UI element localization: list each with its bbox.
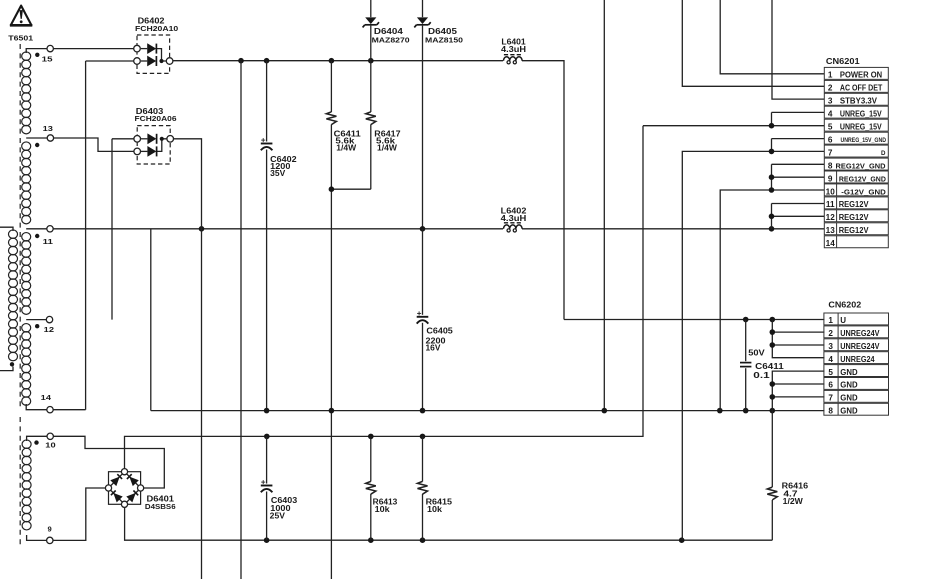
CN6201 row 8 box [824, 158, 888, 170]
D6402 diode 1 [147, 43, 156, 54]
CN6201 row 10 box [824, 184, 888, 196]
capacitor C6411 leads [745, 320, 747, 362]
primary winding (left) [9, 230, 18, 239]
wire 11-line tee down to gnd bus (x=150.8) [150, 229, 152, 411]
node dot pin9 [769, 174, 775, 180]
pin 9 terminal [47, 537, 53, 543]
wire CN6201 pin9 stub [772, 176, 825, 178]
node dot gnd x745.7 [743, 408, 749, 414]
wire to pin10 from gnd bus [720, 190, 824, 411]
CN6201 row 14 divider [836, 236, 838, 248]
diode pack D6403 dashed box [137, 126, 170, 164]
svg-text:8: 8 [828, 407, 833, 416]
svg-text:REG12V: REG12V [839, 226, 869, 235]
CN6201 row 2 box [824, 80, 888, 92]
wire CN6201 pin11 stub [772, 203, 825, 205]
svg-text:REG12V: REG12V [839, 200, 869, 209]
resistor R6411 (labelled C6411) [326, 112, 336, 125]
wire lower winding top to pin 10 [27, 436, 47, 441]
CN6202 row 4 box [824, 352, 889, 364]
svg-text:12: 12 [44, 325, 54, 334]
winding 10-9 (lower secondary) [22, 440, 31, 449]
pin 10 terminal [47, 433, 53, 439]
bridge top terminal [121, 469, 127, 475]
CN6201 row 14 box [824, 236, 888, 248]
wire resistor bottoms joining jog [331, 188, 370, 190]
CN6202 row 1 box [824, 313, 889, 325]
wire x241 vertical [240, 61, 242, 579]
svg-text:T6501: T6501 [8, 33, 34, 42]
CN6202 row 1 divider [837, 313, 839, 325]
svg-text:D4SBS6: D4SBS6 [145, 502, 176, 511]
CN6201 row 11 box [824, 197, 888, 209]
node dot bottom x681.7 [679, 537, 685, 543]
primary bottom lead [0, 367, 13, 371]
CN6202 row 6 box [824, 378, 889, 390]
svg-text:14: 14 [826, 239, 836, 248]
node dot cn2 pin7 [770, 394, 776, 400]
svg-text:REG12V_GND: REG12V_GND [836, 161, 886, 170]
bridge bottom terminal [121, 501, 127, 507]
D6403 internal wires [141, 138, 147, 140]
svg-text:7: 7 [828, 394, 833, 403]
wire winding bottom to pin 14 [26, 404, 47, 410]
svg-text:11: 11 [43, 237, 54, 246]
phase dot near 13 [35, 143, 39, 147]
wire cn2 pin6 stub [772, 383, 824, 385]
svg-text:STBY3.3V: STBY3.3V [840, 97, 878, 106]
svg-text:9: 9 [48, 525, 52, 534]
CN6201 row 10 divider [836, 184, 838, 196]
svg-text:U: U [840, 316, 846, 325]
svg-text:FCH20A10: FCH20A10 [135, 24, 178, 33]
node dot pin12 [769, 214, 775, 220]
wire D6405 top lead [422, 0, 424, 17]
svg-text:12: 12 [826, 213, 836, 222]
winding 11-12 [22, 233, 31, 242]
node dot bus x241 [238, 58, 244, 64]
stub pins 8-10 [771, 164, 773, 190]
CN6201 row 12 divider [836, 210, 838, 222]
wire D6403 pin1 to x112 [112, 138, 134, 140]
node dot pin7 [769, 149, 775, 155]
CN6202 row 5 divider [837, 365, 839, 377]
CN6202 row 8 divider [837, 403, 839, 415]
svg-text:7: 7 [828, 148, 833, 157]
wire pin9 to bridge left [53, 488, 105, 540]
inductor L6401 [504, 57, 523, 61]
svg-text:D: D [881, 150, 886, 157]
CN6201 row 13 divider [836, 223, 838, 235]
D6403 pin 1 circle [134, 136, 141, 143]
wire pin10 jog to bridge right [53, 436, 164, 488]
svg-text:1/4W: 1/4W [336, 144, 356, 153]
wire D6403 pin1 down to pin 12 (x=112) [111, 139, 113, 320]
node dot 11-line x201.5 [199, 226, 205, 232]
svg-text:1: 1 [828, 71, 833, 80]
svg-text:3: 3 [828, 342, 833, 351]
resistor R6413 [366, 481, 376, 494]
svg-text:4: 4 [828, 355, 833, 364]
CN6201 row 12 box [824, 210, 888, 222]
svg-text:6: 6 [828, 381, 833, 390]
svg-text:UNREG24V: UNREG24V [840, 329, 880, 338]
zener diode D6405 [417, 17, 428, 24]
svg-text:4.3uH: 4.3uH [501, 45, 526, 54]
svg-text:FCH20A06: FCH20A06 [135, 114, 177, 123]
stub pins 11-13 [771, 204, 773, 229]
node dot unreg x422.5 [420, 434, 426, 440]
CN6202 row 7 divider [837, 390, 839, 402]
CN6202 row 4 divider [837, 352, 839, 364]
wire feeder to CN6201 pin1 [720, 0, 824, 74]
wire L6401 branch to CN6202 pin1 [564, 319, 824, 321]
wire D6404 top lead [370, 0, 372, 17]
wire pin15 to D6402 pin1 [53, 48, 136, 50]
CN6201 row 13 box [824, 223, 888, 235]
CN6202 row 2 divider [837, 326, 839, 338]
diode pack D6402 dashed box [137, 35, 170, 73]
node dot unreg x266.8 [264, 434, 270, 440]
D6402 diode 2 [147, 56, 156, 67]
resistor R6417 [366, 112, 376, 125]
D6403 output pin circle [167, 136, 174, 143]
wire x266.6 vertical lower [266, 150, 268, 411]
bridge right terminal [138, 485, 144, 491]
node dot bus x266.6 [264, 58, 270, 64]
node dot cn2 pin1 x745.7 [743, 317, 749, 323]
CN6201 row 3 box [824, 93, 888, 105]
capacitor C6403 [261, 485, 273, 487]
wire D6404 to bus [370, 26, 372, 61]
wire CN6201 pin8 stub [772, 163, 825, 165]
wire feeder to CN6201 pin2 [682, 0, 824, 86]
svg-text:2: 2 [828, 329, 833, 338]
capacitor C6405 [417, 316, 429, 318]
capacitor C6411 plates [740, 362, 751, 364]
bridge positive riser [125, 126, 644, 469]
wire CN6201 pin12 stub [772, 215, 825, 217]
capacitor C6403 top lead [266, 436, 268, 483]
CN6202 row 2 box [824, 326, 889, 338]
node dot pin10 [769, 187, 775, 193]
svg-text:8: 8 [828, 161, 833, 170]
pin 15 terminal [47, 45, 53, 51]
pin 12 terminal [46, 316, 52, 322]
wire x422.5 cap to gnd bus [422, 323, 424, 411]
svg-text:50V: 50V [748, 348, 765, 357]
svg-text:1/4W: 1/4W [377, 144, 397, 153]
resistor R6416 leads [771, 411, 773, 487]
gnd bus wire [151, 410, 825, 412]
wire D6405 down to 11-line [422, 26, 424, 229]
wire x331.4 vertical [330, 61, 332, 112]
svg-text:REG12V_GND: REG12V_GND [839, 174, 886, 183]
bridge diode lower-right (to right node) [126, 493, 136, 503]
resistor R6416 [767, 487, 777, 500]
node dot gnd x719.8 [717, 408, 723, 414]
svg-text:-G12V_GND: -G12V_GND [841, 187, 886, 196]
wire D6402 pin2 down to pin 14 (x=85.6) [85, 61, 87, 410]
svg-text:11: 11 [826, 200, 835, 209]
phase dot near 15 [35, 53, 39, 57]
node dot 11-line x422.5 [420, 226, 426, 232]
node dot gnd x422.5 [420, 408, 426, 414]
wire x370.8 vertical upper [370, 61, 372, 112]
CN6201 row 4 box [824, 106, 888, 118]
svg-text:UNREG_15V_GND: UNREG_15V_GND [841, 137, 887, 144]
wire cn2 pin2 stub [772, 331, 824, 333]
svg-text:35V: 35V [270, 169, 286, 178]
node dot 11-line x771.5 [769, 226, 775, 232]
svg-text:GND: GND [840, 394, 858, 403]
wire feeder to CN6201 pin3 [772, 0, 824, 99]
D6403 internal junction dot [160, 137, 164, 141]
CN6202 row 8 box [824, 403, 889, 415]
node dot bus x370.8 [368, 58, 374, 64]
CN6202 row 3 divider [837, 339, 839, 351]
node dot bus x331.4 [329, 58, 335, 64]
wire cn2 pin7 stub [772, 396, 824, 398]
svg-text:5: 5 [828, 123, 833, 132]
inductor L6402 [504, 225, 523, 229]
CN6201 row 11 divider [836, 197, 838, 209]
svg-text:0.1: 0.1 [753, 371, 770, 380]
stub pins 6-7 [771, 139, 773, 152]
D6402 internal junction dot [159, 59, 163, 63]
svg-text:GND: GND [840, 407, 858, 416]
winding 13-11 [22, 142, 31, 151]
node dot gnd x266.6 [264, 408, 270, 414]
phase dot near 12 [35, 324, 39, 328]
wire x422.5 above cap [422, 229, 424, 315]
transformer core (dashed) [19, 44, 21, 410]
svg-text:5: 5 [828, 368, 833, 377]
warning triangle symbol [11, 6, 32, 26]
primary top lead [0, 227, 13, 231]
D6403 diode 1 [147, 133, 156, 144]
wire D6402 pin2 to node [86, 60, 137, 62]
svg-text:UNREG24: UNREG24 [840, 355, 875, 364]
wire CN6201 pin6 stub [772, 138, 825, 140]
node dot bottom x422.5 [420, 537, 426, 543]
node dot cn2 pin6 [770, 381, 776, 387]
D6403 diode 2 [147, 146, 156, 157]
wire to pin7 from bottom bus [682, 151, 824, 540]
pin 14 terminal [47, 407, 53, 413]
svg-text:10: 10 [45, 441, 55, 450]
D6403 pin 2 circle [134, 148, 141, 155]
wire cn2 pins1-4 tie [772, 320, 824, 358]
svg-text:GND: GND [840, 368, 858, 377]
svg-text:POWER ON: POWER ON [840, 71, 882, 80]
wire lower winding bottom to pin 9 [27, 535, 47, 540]
wire 11-line to connector [53, 228, 503, 230]
svg-text:1: 1 [828, 316, 833, 325]
wire feeder x604.3 from top [603, 0, 605, 408]
resistor R6413 leads [370, 436, 372, 481]
wire tap to pin 12 [26, 319, 46, 321]
wire winding top to pin 15 [26, 49, 47, 53]
svg-text:15: 15 [42, 55, 54, 64]
node dot cn2 pin3 [770, 342, 776, 348]
node dot cn2 pin2 [770, 329, 776, 335]
D6402 pin 1 circle [134, 45, 141, 52]
svg-text:GND: GND [840, 381, 858, 390]
svg-text:MAZ8270: MAZ8270 [372, 36, 410, 45]
zener diode D6404 [365, 17, 376, 24]
wire CN6201 pin4 stub [772, 111, 825, 113]
CN6201 row 5 box [824, 119, 888, 131]
bridge left terminal [105, 485, 111, 491]
node dot pin5 [769, 123, 775, 129]
capacitor C6402 [261, 143, 273, 145]
pin 13 terminal [47, 135, 53, 141]
CN6202 row 3 box [824, 339, 889, 351]
bridge diode upper-left (to top node) [110, 477, 119, 487]
wire tap to pin 11 [26, 228, 47, 230]
svg-text:9: 9 [828, 174, 833, 183]
CN6201 row 9 box [824, 171, 888, 183]
node dot unreg x370.8 [368, 434, 374, 440]
CN6202 row 7 box [824, 390, 889, 402]
node dot cn2 pin1 x772.3 [770, 317, 776, 323]
winding 12-14 [22, 324, 31, 333]
svg-text:10k: 10k [427, 505, 443, 514]
wire tap to pin 13 [26, 137, 47, 139]
stub pins 4-5 [771, 112, 773, 125]
svg-text:1/2W: 1/2W [783, 497, 804, 506]
wire bus after L6401 to corner [522, 61, 564, 320]
D6402 internal wires [141, 48, 147, 50]
wire pin14 [53, 409, 85, 411]
phase dot near 10 [34, 440, 38, 444]
node dot gnd x604.3 [602, 408, 608, 414]
bridge D6401 outer box [109, 472, 141, 505]
bridge diode lower-left (to left node) [113, 493, 122, 503]
svg-text:14: 14 [41, 393, 52, 402]
svg-text:UNREG_15V: UNREG_15V [840, 123, 882, 132]
wire cn2 pin3 stub [772, 344, 824, 346]
node dot x331.4 y189.2 [329, 186, 335, 192]
capacitor C6403 bottom lead [266, 492, 268, 541]
svg-text:UNREG24V: UNREG24V [840, 342, 880, 351]
svg-text:16V: 16V [426, 344, 442, 353]
node dot bottom x266.6 [264, 537, 270, 543]
svg-text:CN6201: CN6201 [826, 57, 860, 66]
svg-text:4: 4 [828, 110, 833, 119]
svg-text:C6405: C6405 [426, 327, 453, 336]
svg-text:C6411: C6411 [755, 362, 784, 371]
pin 11 terminal [47, 226, 53, 232]
bridge diode upper-right (to top node) [129, 477, 139, 487]
svg-text:10: 10 [826, 187, 836, 196]
wire D6403 output to x201.5 down [174, 139, 202, 579]
svg-text:AC OFF DET: AC OFF DET [840, 84, 882, 93]
CN6202 row 6 divider [837, 378, 839, 390]
svg-text:10k: 10k [375, 505, 391, 514]
phase dot near 11 [35, 234, 39, 238]
bridge diamond wires [109, 472, 125, 488]
node dot gnd x772.3 [770, 408, 776, 414]
svg-text:MAZ8150: MAZ8150 [425, 36, 463, 45]
svg-text:4.3uH: 4.3uH [501, 214, 527, 223]
svg-text:13: 13 [43, 124, 53, 133]
CN6202 row 5 box [824, 365, 889, 377]
node dot gnd x331.4 [329, 408, 335, 414]
resistor R6415 [418, 481, 428, 494]
wire x266.6 vertical upper [266, 61, 268, 142]
wire unreg15 riser to pin5 [643, 125, 824, 127]
winding 15-13 (secondary) [22, 52, 31, 61]
svg-text:3: 3 [828, 97, 833, 106]
D6402 output pin circle [166, 58, 173, 65]
CN6201 row 1 box [824, 67, 888, 79]
resistor R6415 leads [422, 436, 424, 481]
svg-text:UNREG_15V: UNREG_15V [840, 110, 882, 119]
primary phase dot [10, 362, 14, 366]
svg-text:13: 13 [826, 226, 836, 235]
svg-text:REG12V: REG12V [839, 213, 869, 222]
svg-text:6: 6 [828, 135, 833, 144]
D6402 pin 2 circle [134, 58, 141, 65]
wire cn2 pins5-8 tie [772, 371, 824, 411]
CN6201 row 9 divider [836, 171, 838, 183]
wire pin13 jog to D6403 pin2 [54, 138, 134, 151]
CN6201 row 6 box [824, 132, 888, 144]
node dot bottom x370.8 [368, 537, 374, 543]
svg-text:2: 2 [828, 84, 833, 93]
wire D6402 output bus [173, 60, 503, 62]
bridge negative bus [125, 507, 773, 540]
CN6201 row 7 box [824, 145, 888, 157]
svg-text:CN6202: CN6202 [828, 300, 861, 309]
svg-text:25V: 25V [270, 512, 286, 521]
